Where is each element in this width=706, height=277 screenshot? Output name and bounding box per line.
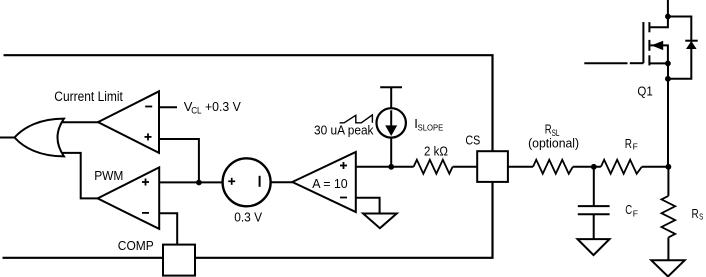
svg-text:CS: CS bbox=[465, 132, 480, 147]
svg-text:CL: CL bbox=[191, 106, 201, 116]
svg-text:A = 10: A = 10 bbox=[312, 176, 348, 191]
svg-text:R: R bbox=[625, 137, 632, 151]
svg-text:SLOPE: SLOPE bbox=[418, 123, 444, 133]
svg-text:+0.3 V: +0.3 V bbox=[205, 99, 241, 114]
svg-text:Current Limit: Current Limit bbox=[54, 89, 123, 104]
svg-text:PWM: PWM bbox=[94, 168, 123, 183]
svg-text:S: S bbox=[699, 212, 703, 222]
svg-text:0.3 V: 0.3 V bbox=[234, 209, 262, 224]
svg-text:F: F bbox=[633, 209, 638, 219]
svg-text:Q1: Q1 bbox=[637, 83, 652, 98]
svg-text:COMP: COMP bbox=[118, 238, 154, 253]
svg-text:R: R bbox=[692, 206, 699, 221]
svg-text:2 kΩ: 2 kΩ bbox=[424, 144, 448, 159]
svg-text:30 uA peak: 30 uA peak bbox=[314, 122, 374, 137]
svg-text:C: C bbox=[625, 202, 632, 217]
svg-text:(optional): (optional) bbox=[528, 135, 579, 150]
svg-text:F: F bbox=[633, 142, 638, 152]
